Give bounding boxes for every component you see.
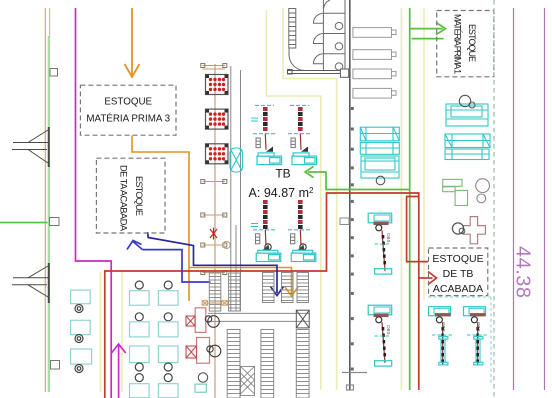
tan x-boxes pair (202, 301, 228, 305)
cyan tiny marks (251, 118, 258, 227)
right dashed boundary (493, 0, 495, 398)
svg-text:OBS: OBS (386, 233, 391, 243)
svg-text:ESTOQUE: ESTOQUE (104, 97, 152, 108)
bowtie transfer (296, 310, 309, 328)
wall tick marks (351, 107, 354, 371)
elevator symbol (cyan X-oval) (230, 148, 243, 172)
right cyan machine group (445, 104, 490, 160)
small square bottom-left (51, 361, 60, 370)
lower hatched strips (227, 330, 240, 398)
green horizontal bottom-left (0, 222, 48, 224)
wall bottom bracket (342, 373, 367, 391)
svg-text:A: 94.87 m2: A: 94.87 m2 (249, 186, 314, 200)
magenta up arrow (112, 344, 126, 398)
dashed box ESTOQUE MATERIA PRIMA 3 (80, 85, 176, 135)
svg-text:DE TB: DE TB (443, 268, 474, 280)
conveyor edge lines (230, 66, 232, 311)
crossbar end circle (223, 241, 230, 248)
left cyan machine group (360, 127, 399, 178)
purple boundary lines (513, 8, 515, 390)
left green line (48, 36, 50, 392)
desks left column (71, 290, 92, 364)
benches (top right) (353, 28, 396, 99)
crosshatch strip (241, 366, 255, 395)
orange flow line from box 3 (132, 136, 189, 302)
stairs (289, 9, 296, 49)
svg-text:OBS: OBS (441, 322, 446, 332)
person at cross (452, 223, 463, 234)
bottom right sewing unit B1 (429, 307, 455, 365)
bottom wall of washroom (double) (288, 70, 346, 75)
orange down arrow (top) (125, 8, 140, 77)
orange horizontal + down arrow (189, 268, 298, 297)
left wall line 2 (short) (49, 8, 51, 38)
dashed box ESTOQUE MATERIA PRIMA 1 (437, 11, 494, 77)
TB machine upper pair (253, 105, 282, 164)
aisle double lines (208, 312, 310, 314)
desks middle columns (130, 281, 150, 398)
green flow line main (305, 8, 446, 390)
pallet rail (214, 64, 216, 398)
rail crossbars (203, 66, 226, 273)
two circles (476, 179, 490, 193)
sewing unit M1 (368, 213, 392, 274)
svg-text:MATÉRIA PRIMA 3: MATÉRIA PRIMA 3 (86, 114, 170, 125)
toilet stalls (313, 0, 345, 71)
main interior wall vertical (349, 0, 351, 390)
yellow boundary lines (101, 8, 425, 392)
persons at tables (205, 316, 221, 357)
red marker on rail (210, 228, 217, 240)
left wall line (tan) (44, 8, 46, 392)
blue flow path 2 (148, 232, 284, 296)
dashed box ESTOQUE DE TB ACABADA (429, 248, 488, 296)
svg-text:44.38: 44.38 (512, 246, 534, 299)
gray rect on wall mid (340, 218, 349, 225)
cyan dashed separators (428, 296, 491, 298)
blue flow path 1 (127, 241, 211, 283)
red flow loop (105, 193, 437, 398)
small square mid-left (50, 218, 60, 226)
pallets with red dots (206, 75, 229, 95)
hatched strip A1 (209, 273, 221, 311)
truss symbol 2 (12, 263, 49, 303)
green rect bottom left of strips (195, 384, 206, 392)
dashed box ESTOQUE DE TA ACABADA (96, 158, 165, 233)
magenta flow line (76, 8, 112, 398)
small square on left line top (50, 69, 58, 77)
sewing unit M2 (368, 305, 392, 366)
cross / first-aid shape (463, 217, 485, 244)
junction box on wall (340, 69, 348, 77)
svg-text:ACABADA: ACABADA (433, 283, 483, 295)
bottom right sewing unit B2 (464, 307, 490, 365)
44.38 dimension text (512, 246, 534, 299)
door below stairs (289, 48, 305, 71)
TB machine lower pair (253, 200, 281, 262)
truss symbol 1 (12, 127, 49, 167)
green rects (443, 179, 468, 205)
hatched strip A3 (263, 273, 275, 303)
red X boxes (186, 316, 197, 358)
svg-text:ESTOQUE: ESTOQUE (432, 253, 483, 265)
inspection tables red (195, 308, 209, 363)
svg-text:TB: TB (275, 167, 290, 181)
